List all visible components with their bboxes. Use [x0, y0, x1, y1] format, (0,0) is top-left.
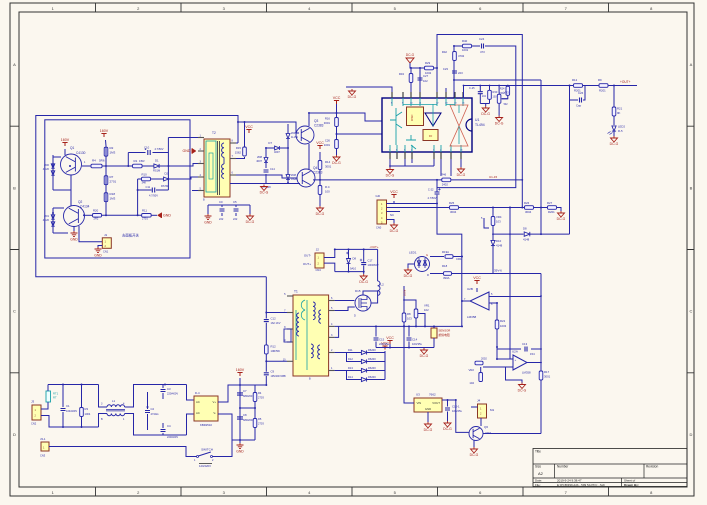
svg-text:C27: C27: [423, 74, 429, 78]
svg-text:DC-G: DC-G: [518, 389, 527, 393]
svg-text:Drawn By:: Drawn By:: [624, 483, 639, 487]
svg-text:R12: R12: [271, 344, 277, 348]
svg-text:VCC: VCC: [386, 336, 394, 340]
svg-text:DC-G: DC-G: [481, 112, 490, 116]
svg-text:DC-G: DC-G: [348, 95, 357, 99]
svg-text:R30: R30: [493, 90, 498, 94]
svg-text:VR4: VR4: [496, 215, 502, 219]
svg-text:5R6: 5R6: [99, 159, 105, 163]
svg-text:B: B: [690, 185, 693, 190]
svg-text:9K: 9K: [617, 111, 621, 115]
svg-text:D8: D8: [523, 227, 527, 231]
svg-text:R26: R26: [524, 201, 530, 205]
svg-text:D10: D10: [496, 239, 502, 243]
svg-text:7662: 7662: [429, 393, 436, 397]
svg-text:J3: J3: [31, 400, 35, 404]
svg-text:4.7/50V: 4.7/50V: [428, 196, 437, 200]
svg-text:1M3: 1M3: [110, 151, 116, 155]
svg-text:102: 102: [424, 308, 429, 312]
svg-text:2R2: 2R2: [94, 217, 99, 221]
svg-text:220/400V: 220/400V: [167, 392, 178, 396]
svg-text:去面板开关: 去面板开关: [122, 233, 140, 238]
svg-text:102: 102: [423, 79, 428, 83]
svg-text:D12: D12: [348, 357, 353, 361]
svg-text:2701: 2701: [142, 217, 148, 221]
svg-text:C1: C1: [66, 404, 70, 408]
svg-text:R2: R2: [110, 146, 114, 150]
svg-text:VCC: VCC: [473, 276, 481, 280]
svg-text:R201: R201: [599, 89, 606, 93]
svg-text:1004: 1004: [85, 412, 91, 416]
svg-text:Number: Number: [557, 465, 569, 469]
svg-text:35V-6: 35V-6: [494, 269, 502, 273]
svg-text:C4130: C4130: [76, 151, 86, 155]
svg-text:R-5: R-5: [618, 129, 623, 133]
svg-text:100/25v: 100/25v: [452, 409, 463, 413]
svg-text:C2383: C2383: [313, 171, 323, 175]
svg-text:C4134: C4134: [80, 205, 90, 209]
svg-text:R201: R201: [548, 210, 555, 214]
svg-text:R40: R40: [462, 39, 468, 43]
svg-text:4007: 4007: [256, 159, 262, 163]
svg-text:2703: 2703: [258, 422, 264, 426]
svg-text:D7: D7: [268, 141, 272, 145]
svg-text:R20: R20: [93, 209, 99, 213]
svg-text:R29: R29: [425, 61, 431, 65]
svg-text:VR3: VR3: [504, 91, 510, 95]
svg-text:File:: File:: [535, 483, 541, 487]
svg-text:DC-G: DC-G: [332, 161, 341, 165]
svg-text:100: 100: [325, 190, 330, 194]
svg-text:CR1: CR1: [456, 257, 462, 261]
svg-text:160V: 160V: [403, 289, 407, 296]
svg-text:220/35v: 220/35v: [379, 342, 390, 346]
svg-text:M1: M1: [490, 408, 494, 412]
svg-text:-OUT+: -OUT+: [370, 245, 379, 249]
svg-text:120/220V: 120/220V: [199, 464, 211, 468]
svg-text:473: 473: [480, 50, 485, 54]
svg-text:D13: D13: [348, 366, 353, 370]
svg-text:GND: GND: [183, 149, 191, 153]
svg-text:LM358: LM358: [522, 371, 531, 375]
svg-text:C3: C3: [167, 387, 171, 391]
svg-text:160V: 160V: [236, 368, 245, 372]
svg-text:OUT-: OUT-: [304, 254, 311, 258]
svg-text:GND: GND: [236, 449, 244, 453]
svg-text:D-4: D-4: [195, 391, 200, 395]
svg-text:R22: R22: [500, 319, 506, 323]
svg-text:LED1: LED1: [409, 251, 417, 255]
svg-text:KBR2510: KBR2510: [200, 423, 212, 427]
svg-text:R18: R18: [110, 192, 116, 196]
svg-text:C14: C14: [270, 167, 275, 171]
svg-text:DC-G: DC-G: [359, 280, 368, 284]
svg-text:FF: FF: [429, 134, 433, 138]
svg-text:C-25: C-25: [469, 86, 475, 90]
svg-text:U2A: U2A: [512, 350, 518, 354]
svg-text:222: 222: [219, 217, 224, 221]
svg-text:DC-G: DC-G: [610, 142, 619, 146]
svg-text:J3-1: J3-1: [40, 437, 46, 441]
svg-text:R.C: R.C: [325, 185, 330, 189]
svg-text:C13: C13: [522, 342, 528, 346]
svg-text:1M3: 1M3: [110, 197, 116, 201]
svg-text:C: C: [690, 309, 693, 314]
svg-text:RS2M: RS2M: [291, 178, 298, 181]
svg-text:9A10: 9A10: [350, 267, 357, 271]
svg-text:162 1KV: 162 1KV: [271, 321, 281, 325]
svg-text:CN2: CN2: [31, 422, 37, 426]
svg-text:2002: 2002: [481, 357, 487, 361]
svg-text:OSC: OSC: [410, 114, 414, 121]
svg-text:CN3: CN3: [40, 454, 46, 458]
svg-text:4C20: 4C20: [43, 167, 50, 171]
svg-text:C10-1: C10-1: [452, 405, 460, 409]
svg-text:VCC: VCC: [245, 125, 253, 129]
svg-text:Sheet of: Sheet of: [624, 479, 635, 483]
svg-text:C10: C10: [144, 146, 150, 150]
svg-text:R3: R3: [85, 407, 89, 411]
svg-text:DC-G: DC-G: [457, 173, 466, 177]
svg-text:VCC: VCC: [390, 190, 398, 194]
svg-text:103: 103: [493, 95, 498, 98]
svg-text:R6200: R6200: [368, 357, 376, 361]
svg-text:C23: C23: [443, 67, 449, 71]
svg-text:GND: GND: [70, 237, 78, 241]
svg-text:TL494: TL494: [475, 123, 485, 127]
svg-text:C-22: C-22: [428, 188, 434, 192]
svg-text:A2: A2: [538, 471, 544, 476]
svg-text:绝缘电阻: 绝缘电阻: [439, 333, 450, 337]
svg-text:D15: D15: [355, 289, 361, 293]
svg-text:D11: D11: [348, 348, 353, 352]
svg-text:DC-G: DC-G: [260, 191, 269, 195]
svg-text:C4: C4: [167, 424, 171, 428]
svg-text:A: A: [690, 62, 693, 67]
svg-text:R: R: [427, 273, 429, 277]
svg-text:R12: R12: [572, 78, 578, 82]
svg-text:Q1: Q1: [70, 146, 74, 150]
svg-text:C2: C2: [151, 407, 155, 411]
svg-text:R18: R18: [442, 264, 448, 268]
svg-text:R11: R11: [142, 209, 147, 213]
svg-text:2703: 2703: [258, 396, 264, 400]
svg-text:VR1: VR1: [424, 304, 430, 308]
svg-text:104: 104: [482, 95, 487, 98]
svg-text:680/200v: 680/200v: [243, 418, 254, 422]
svg-text:34K: 34K: [142, 181, 147, 185]
svg-text:GND: GND: [94, 253, 102, 257]
svg-text:NC: NC: [390, 213, 394, 217]
svg-text:3001: 3001: [325, 165, 332, 169]
svg-text:103: 103: [407, 317, 412, 321]
svg-text:R21: R21: [617, 107, 623, 111]
svg-text:RT: RT: [53, 396, 57, 400]
svg-text:D2: D2: [165, 172, 169, 176]
svg-text:1001: 1001: [324, 143, 331, 147]
svg-text:D: D: [690, 432, 693, 437]
svg-text:U1: U1: [475, 118, 479, 122]
svg-text:4148: 4148: [523, 238, 530, 242]
svg-text:Size: Size: [535, 465, 541, 469]
svg-text:SWITCH: SWITCH: [201, 448, 213, 452]
svg-text:R17: R17: [544, 370, 550, 374]
svg-text:C0: C0: [219, 200, 223, 204]
svg-text:AC: AC: [196, 411, 200, 415]
svg-text:C5: C5: [233, 200, 237, 204]
svg-text:Q2: Q2: [78, 200, 82, 204]
svg-text:U3: U3: [416, 393, 420, 397]
svg-text:10R/5W: 10R/5W: [271, 349, 281, 353]
svg-text:C12: C12: [271, 317, 277, 321]
svg-text:104/400V: 104/400V: [66, 409, 77, 413]
svg-text:R25: R25: [449, 201, 455, 205]
svg-text:−: −: [515, 366, 517, 370]
svg-text:VCC: VCC: [333, 96, 341, 100]
svg-text:154: 154: [530, 352, 535, 356]
svg-text:J2: J2: [316, 248, 320, 252]
svg-text:DC-G: DC-G: [406, 53, 415, 57]
svg-text:VIN: VIN: [417, 401, 422, 405]
svg-text:4007: 4007: [274, 150, 280, 154]
svg-text:220/400V: 220/400V: [167, 435, 178, 439]
svg-text:15R: 15R: [139, 159, 145, 163]
svg-text:RS1M: RS1M: [153, 169, 160, 173]
svg-text:DC-G: DC-G: [420, 354, 429, 358]
svg-text:160V: 160V: [100, 129, 109, 133]
svg-text:GND: GND: [425, 407, 431, 411]
svg-text:160V: 160V: [61, 138, 70, 142]
svg-text:R8: R8: [407, 312, 411, 316]
svg-text:OUT+: OUT+: [303, 262, 311, 266]
svg-text:680/200: 680/200: [243, 394, 253, 398]
svg-text:U2B: U2B: [467, 287, 473, 291]
svg-text:3004: 3004: [525, 210, 532, 214]
svg-text:222: 222: [233, 217, 238, 221]
svg-text:4.7/50V: 4.7/50V: [155, 147, 164, 151]
svg-text:C8: C8: [243, 413, 247, 417]
svg-text:DC-G: DC-G: [386, 174, 395, 178]
svg-text:GND: GND: [163, 214, 171, 218]
svg-text:Date:: Date:: [535, 479, 542, 483]
svg-text:U1-15: U1-15: [489, 175, 498, 179]
svg-text:D: D: [13, 432, 16, 437]
svg-text:R6200: R6200: [368, 375, 376, 379]
svg-text:3001: 3001: [324, 121, 331, 125]
svg-text:GND: GND: [204, 220, 212, 224]
svg-text:4702: 4702: [458, 54, 465, 58]
svg-text:R27: R27: [547, 201, 553, 205]
svg-text:R5: R5: [258, 417, 262, 421]
svg-text:D8: D8: [353, 257, 357, 261]
svg-text:R46: R46: [441, 173, 447, 177]
svg-text:D14: D14: [348, 375, 353, 379]
svg-text:2402: 2402: [442, 183, 449, 187]
svg-text:105/400VCBB: 105/400VCBB: [271, 375, 287, 378]
svg-text:D1: D1: [155, 159, 159, 163]
svg-text:R16: R16: [325, 117, 331, 121]
svg-text:502: 502: [504, 103, 509, 106]
svg-text:R14: R14: [325, 160, 331, 164]
svg-text:CN0: CN0: [376, 226, 382, 230]
svg-text:E:\PCB\399.ddb - 599 5A PFC ..: E:\PCB\399.ddb - 599 5A PFC ..Sch: [557, 483, 605, 487]
svg-text:VOUT: VOUT: [432, 401, 440, 405]
svg-text:CN1: CN1: [103, 250, 109, 254]
svg-text:103: 103: [496, 220, 501, 224]
svg-text:VR2: VR2: [469, 368, 475, 372]
svg-text:R6200: R6200: [368, 366, 376, 370]
svg-text:ZD8: ZD8: [257, 155, 262, 159]
svg-text:Q6: Q6: [484, 425, 488, 429]
svg-text:DC-G: DC-G: [404, 274, 413, 278]
svg-text:R6200: R6200: [368, 348, 376, 352]
svg-text:L2: L2: [381, 283, 385, 287]
svg-text:R15: R15: [236, 146, 242, 150]
svg-text:R9: R9: [598, 78, 602, 82]
svg-text:Cap: Cap: [576, 104, 582, 108]
svg-text:R1: R1: [134, 159, 138, 163]
svg-text:ZD8: ZD8: [291, 173, 296, 177]
svg-text:102: 102: [469, 381, 474, 385]
svg-text:3001: 3001: [544, 375, 551, 379]
svg-text:T1: T1: [294, 290, 298, 294]
svg-text:G: G: [426, 253, 428, 257]
svg-text:A: A: [13, 62, 16, 67]
svg-text:DC-G: DC-G: [424, 428, 433, 432]
svg-text:2019-9-24 9:38:47: 2019-9-24 9:38:47: [557, 479, 582, 483]
svg-text:Q4: Q4: [313, 166, 317, 170]
svg-text:C2383: C2383: [314, 124, 324, 128]
svg-text:C7: C7: [243, 389, 247, 393]
svg-text:DC-G: DC-G: [390, 229, 399, 233]
svg-text:1001: 1001: [462, 48, 469, 52]
svg-text:R4: R4: [258, 391, 262, 395]
svg-text:L1: L1: [112, 399, 116, 403]
svg-text:CN4: CN4: [316, 268, 322, 272]
svg-text:R7: R7: [110, 175, 114, 179]
svg-text:+OUT+: +OUT+: [620, 80, 631, 84]
svg-text:4.7/50V: 4.7/50V: [149, 194, 158, 198]
svg-text:R19A: R19A: [442, 250, 449, 254]
svg-text:4C20: 4C20: [43, 218, 50, 222]
svg-text:C24: C24: [479, 37, 485, 41]
svg-text:LM358: LM358: [467, 315, 477, 319]
svg-text:B: B: [13, 185, 16, 190]
svg-text:C: C: [13, 309, 16, 314]
svg-text:3004: 3004: [450, 210, 457, 214]
svg-text:J1: J1: [104, 233, 108, 237]
svg-text:DC-G: DC-G: [470, 453, 479, 457]
svg-text:DC-G: DC-G: [246, 220, 255, 224]
svg-text:1003: 1003: [500, 324, 507, 328]
svg-text:C11: C11: [146, 185, 151, 189]
svg-text:DC-G: DC-G: [443, 427, 452, 431]
svg-text:2701: 2701: [110, 180, 117, 184]
svg-text:V+: V+: [213, 400, 217, 404]
svg-text:T2: T2: [212, 131, 216, 135]
svg-text:DC-G: DC-G: [495, 122, 504, 126]
svg-text:4L15A: 4L15A: [291, 136, 298, 139]
svg-text:ZD1: ZD1: [44, 214, 49, 218]
svg-text:Revision: Revision: [646, 465, 658, 469]
svg-text:RS7M: RS7M: [161, 184, 168, 188]
svg-text:AC: AC: [196, 400, 200, 404]
svg-text:ZD6: ZD6: [291, 131, 296, 135]
svg-text:Q3: Q3: [314, 119, 318, 123]
svg-text:DC-G: DC-G: [316, 212, 325, 216]
svg-text:J4: J4: [477, 399, 481, 403]
svg-text:100/35v: 100/35v: [412, 342, 423, 346]
svg-text:C26: C26: [578, 91, 584, 95]
svg-text:Title: Title: [535, 450, 541, 454]
svg-text:DC-G: DC-G: [557, 217, 566, 221]
svg-text:R10: R10: [142, 173, 148, 177]
svg-text:474AG: 474AG: [151, 412, 159, 416]
svg-text:D: D: [354, 314, 356, 318]
svg-text:V-: V-: [213, 411, 216, 415]
svg-text:C26: C26: [325, 139, 331, 143]
svg-text:R42: R42: [442, 50, 448, 54]
svg-text:1562: 1562: [235, 151, 242, 155]
svg-text:223: 223: [458, 71, 463, 75]
svg-text:C17: C17: [368, 259, 373, 263]
svg-text:+: +: [515, 358, 517, 362]
svg-text:4148: 4148: [496, 244, 503, 248]
svg-text:C9: C9: [271, 369, 275, 373]
svg-text:R43: R43: [399, 72, 405, 76]
svg-text:R24: R24: [500, 87, 505, 91]
svg-text:ZD0: ZD0: [44, 163, 49, 167]
svg-text:R4: R4: [92, 159, 96, 163]
svg-text:390A: 390A: [443, 276, 450, 280]
